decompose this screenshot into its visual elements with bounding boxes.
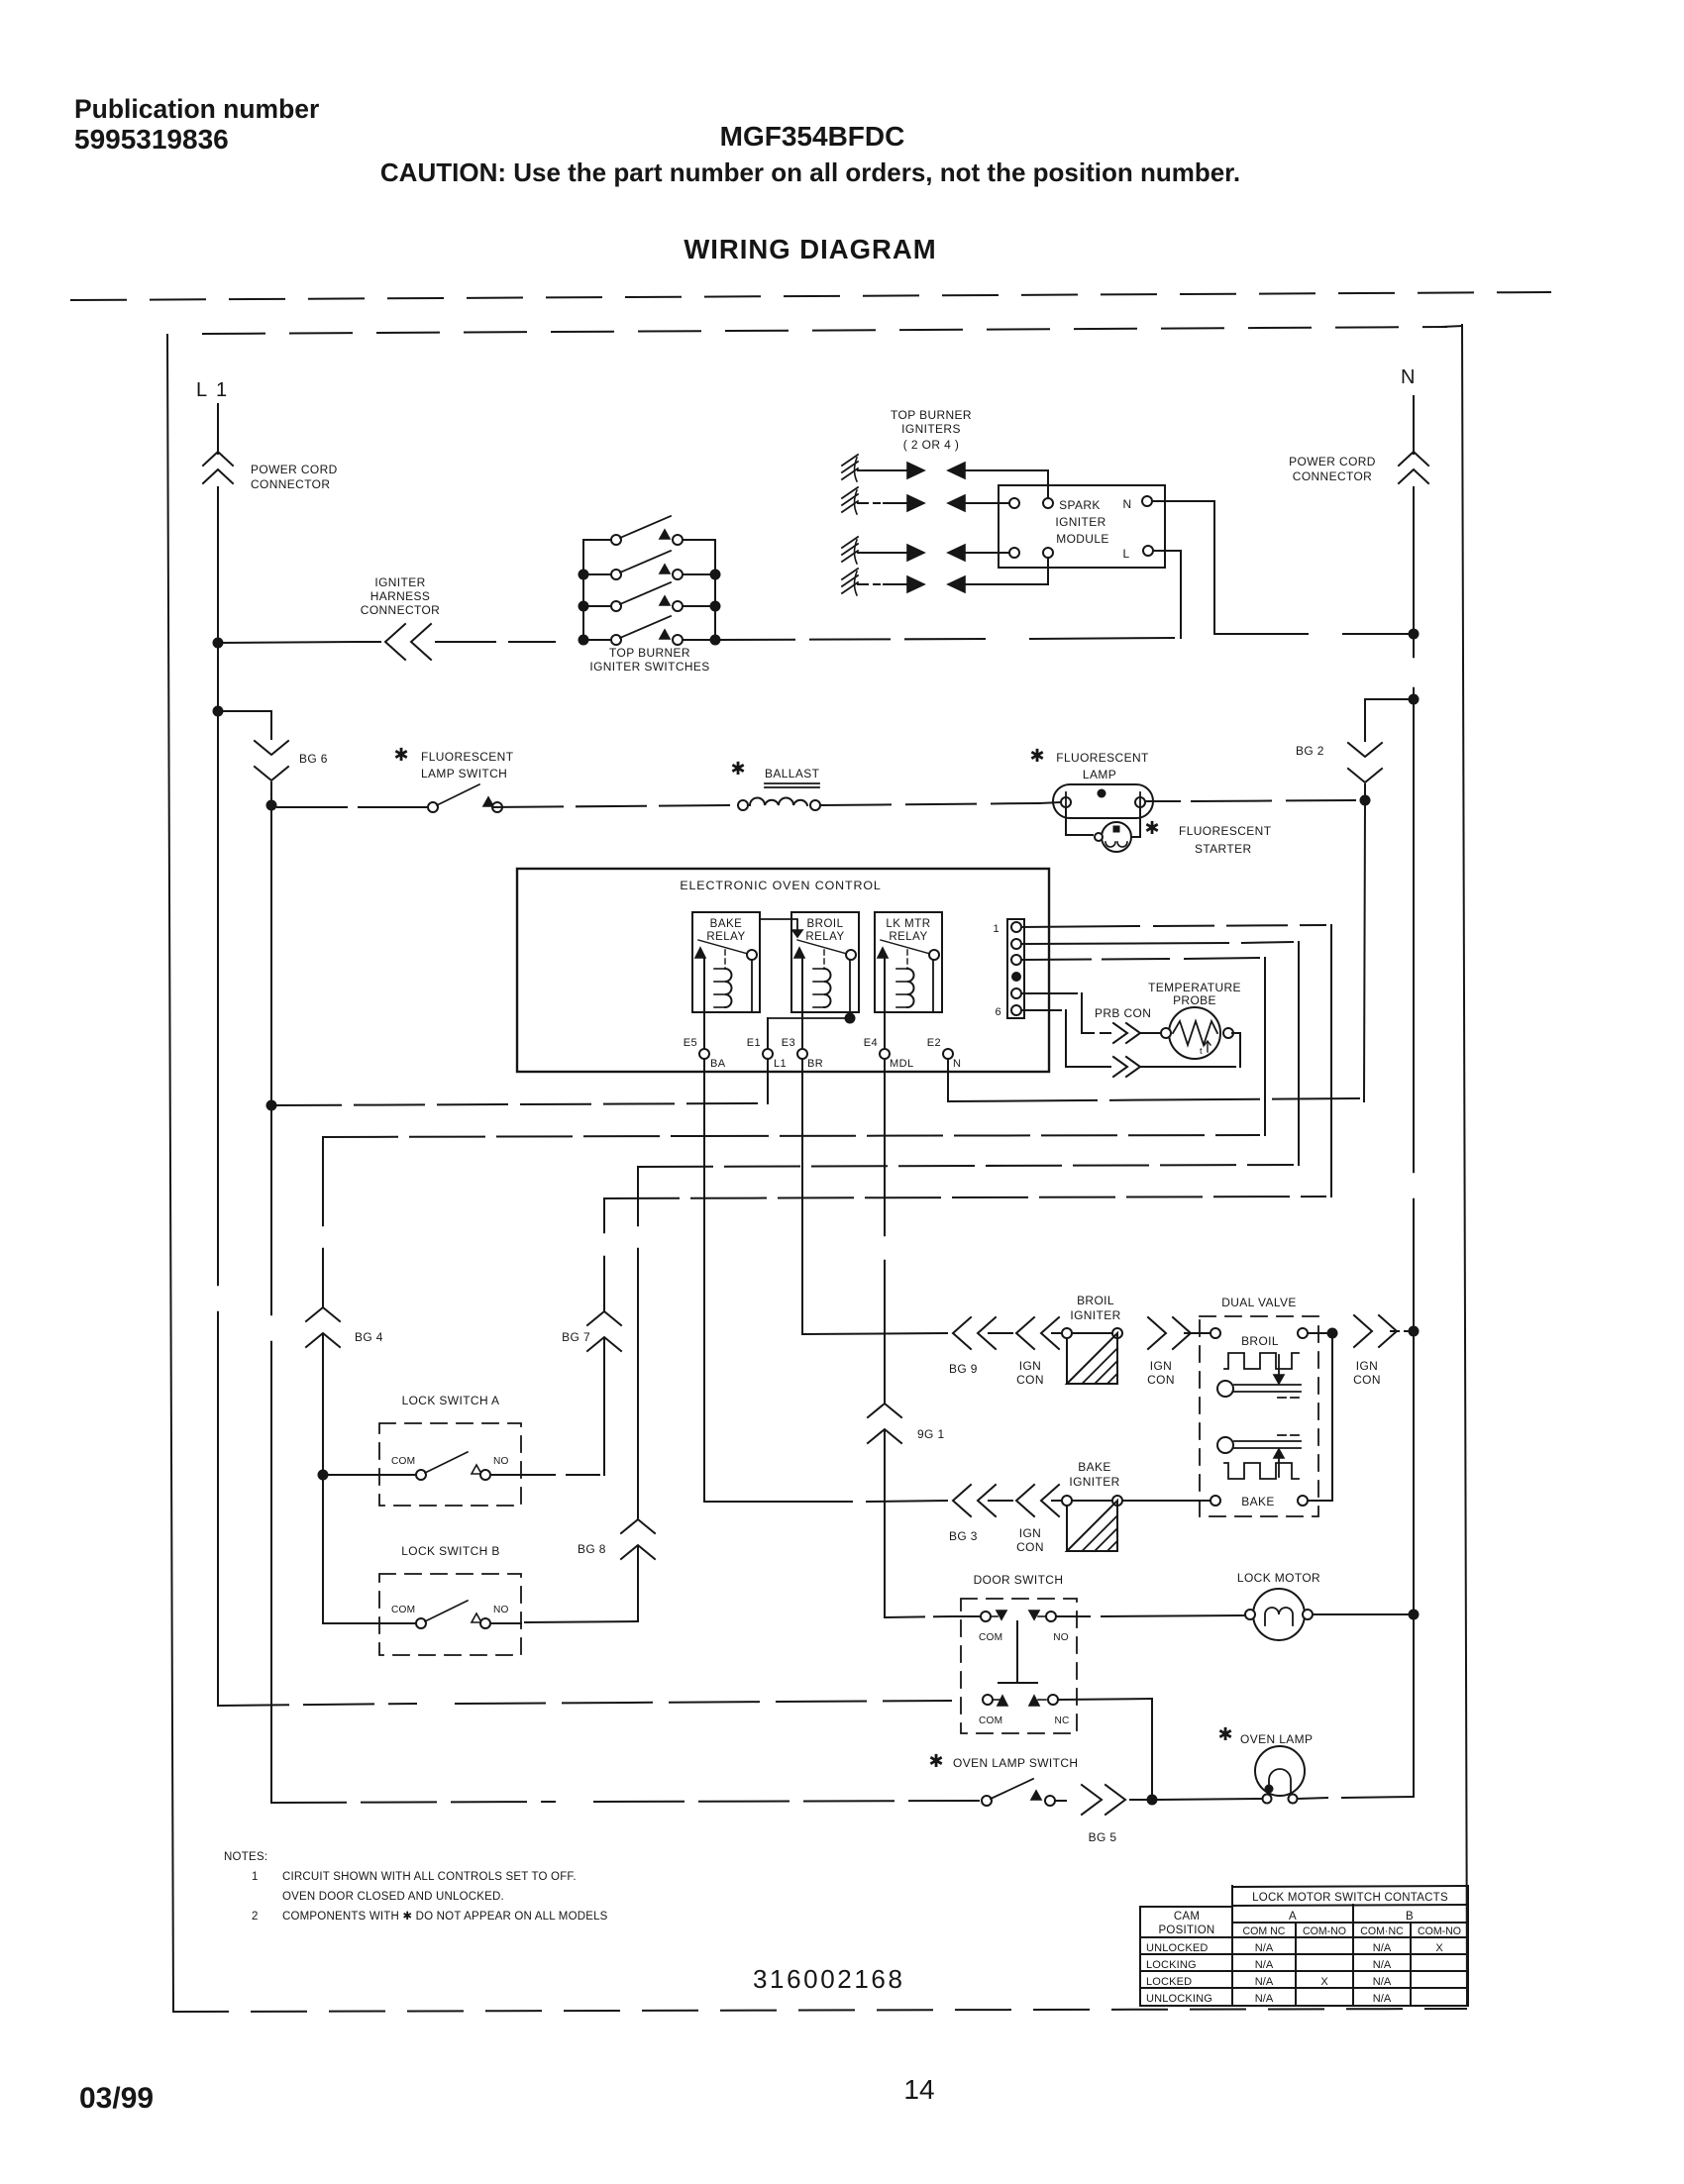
svg-text:RELAY: RELAY: [706, 931, 745, 943]
svg-text:FLUORESCENT: FLUORESCENT: [1179, 824, 1272, 838]
svg-text:IGNITER: IGNITER: [1070, 1308, 1120, 1322]
svg-text:COMPONENTS WITH ✱ DO NOT APP: COMPONENTS WITH ✱ DO NOT APPEAR ON ALL M…: [282, 1911, 608, 1923]
svg-text:LOCKING: LOCKING: [1146, 1959, 1197, 1971]
svg-text:RELAY: RELAY: [889, 931, 927, 943]
svg-text:BA: BA: [710, 1058, 726, 1070]
svg-text:BAKE: BAKE: [710, 918, 743, 930]
svg-text:CONNECTOR: CONNECTOR: [1293, 469, 1372, 483]
svg-text:COM: COM: [391, 1605, 415, 1615]
svg-text:6: 6: [995, 1006, 1001, 1018]
svg-text:IGNITER: IGNITER: [374, 575, 425, 589]
svg-text:BG 5: BG 5: [1089, 1830, 1117, 1844]
svg-text:BROIL: BROIL: [806, 918, 843, 930]
svg-text:L 1: L 1: [196, 379, 229, 401]
svg-text:N/A: N/A: [1373, 1959, 1392, 1971]
svg-text:LOCKED: LOCKED: [1146, 1976, 1192, 1988]
svg-text:✱: ✱: [928, 1751, 943, 1771]
svg-text:CON: CON: [1353, 1373, 1381, 1387]
svg-text:SPARK: SPARK: [1059, 498, 1101, 512]
svg-text:NC: NC: [1054, 1716, 1069, 1726]
svg-text:BG 4: BG 4: [355, 1330, 383, 1344]
svg-text:OVEN DOOR CLOSED AND UNLOCKED.: OVEN DOOR CLOSED AND UNLOCKED.: [282, 1891, 504, 1903]
svg-text:POWER CORD: POWER CORD: [1289, 455, 1376, 468]
svg-text:X: X: [1320, 1976, 1328, 1988]
svg-text:TOP BURNER: TOP BURNER: [891, 408, 972, 422]
svg-text:COM-NO: COM-NO: [1418, 1925, 1461, 1937]
svg-text:NO: NO: [493, 1605, 509, 1615]
svg-text:A: A: [1289, 1911, 1297, 1923]
svg-text:5995319836: 5995319836: [74, 124, 229, 155]
svg-text:BROIL: BROIL: [1077, 1294, 1114, 1307]
svg-text:CAUTION: Use the part number: CAUTION: Use the part number on all orde…: [380, 157, 1240, 187]
svg-text:NOTES:: NOTES:: [224, 1851, 267, 1863]
svg-text:CIRCUIT SHOWN WITH ALL CONTROL: CIRCUIT SHOWN WITH ALL CONTROLS SET TO O…: [282, 1871, 577, 1883]
svg-text:E4: E4: [864, 1037, 878, 1049]
svg-text:14: 14: [903, 2074, 934, 2105]
svg-text:✱: ✱: [1217, 1724, 1232, 1744]
svg-text:TOP BURNER: TOP BURNER: [609, 646, 690, 660]
svg-text:COM: COM: [979, 1716, 1002, 1726]
svg-text:B: B: [1406, 1911, 1414, 1923]
svg-text:E2: E2: [927, 1037, 941, 1049]
svg-text:FLUORESCENT: FLUORESCENT: [421, 750, 514, 764]
svg-text:POSITION: POSITION: [1159, 1924, 1215, 1936]
svg-text:BG 6: BG 6: [299, 752, 328, 766]
svg-text:X: X: [1435, 1942, 1443, 1954]
svg-text:BAKE: BAKE: [1241, 1495, 1275, 1508]
svg-text:IGNITER SWITCHES: IGNITER SWITCHES: [589, 660, 709, 674]
svg-text:PRB CON: PRB CON: [1095, 1006, 1151, 1020]
svg-text:ELECTRONIC OVEN CONTROL: ELECTRONIC OVEN CONTROL: [680, 879, 881, 892]
svg-text:TEMPERATURE: TEMPERATURE: [1148, 981, 1241, 994]
svg-text:BG 3: BG 3: [949, 1529, 978, 1543]
svg-text:BG 9: BG 9: [949, 1362, 978, 1376]
svg-text:BG 7: BG 7: [562, 1330, 590, 1344]
svg-text:N/A: N/A: [1255, 1959, 1274, 1971]
svg-text:1: 1: [993, 923, 1000, 935]
svg-text:POWER CORD: POWER CORD: [251, 463, 338, 476]
svg-text:1: 1: [252, 1871, 259, 1883]
svg-text:N/A: N/A: [1373, 1976, 1392, 1988]
svg-text:NO: NO: [493, 1456, 509, 1467]
svg-text:STARTER: STARTER: [1195, 842, 1251, 856]
svg-text:L1: L1: [774, 1058, 787, 1070]
svg-text:CAM: CAM: [1174, 1911, 1200, 1923]
svg-text:BROIL: BROIL: [1241, 1334, 1279, 1348]
svg-text:✱: ✱: [730, 759, 745, 779]
svg-text:LOCK SWITCH A: LOCK SWITCH A: [402, 1394, 500, 1407]
svg-text:N/A: N/A: [1255, 1993, 1274, 2005]
svg-text:E1: E1: [747, 1037, 761, 1049]
svg-text:COM NC: COM NC: [1243, 1925, 1286, 1937]
svg-text:CONNECTOR: CONNECTOR: [361, 603, 440, 617]
svg-text:( 2 OR 4 ): ( 2 OR 4 ): [903, 438, 959, 452]
svg-text:CON: CON: [1147, 1373, 1175, 1387]
svg-text:CON: CON: [1016, 1373, 1044, 1387]
svg-text:N/A: N/A: [1373, 1942, 1392, 1954]
svg-text:DUAL VALVE: DUAL VALVE: [1221, 1296, 1297, 1309]
svg-text:N/A: N/A: [1255, 1942, 1274, 1954]
svg-text:✱: ✱: [1029, 746, 1044, 766]
svg-text:IGN: IGN: [1019, 1526, 1041, 1540]
svg-text:2: 2: [252, 1911, 259, 1923]
svg-text:OVEN LAMP SWITCH: OVEN LAMP SWITCH: [953, 1756, 1078, 1770]
svg-text:N/A: N/A: [1373, 1993, 1392, 2005]
svg-text:IGNITERS: IGNITERS: [901, 422, 961, 436]
svg-text:FLUORESCENT: FLUORESCENT: [1056, 751, 1149, 765]
svg-text:Publication number: Publication number: [74, 94, 319, 124]
svg-text:316002168: 316002168: [753, 1964, 905, 1994]
svg-text:MGF354BFDC: MGF354BFDC: [720, 121, 905, 152]
svg-text:E3: E3: [782, 1037, 795, 1049]
svg-text:DOOR SWITCH: DOOR SWITCH: [974, 1573, 1064, 1587]
svg-text:IGN: IGN: [1356, 1359, 1378, 1373]
svg-text:✱: ✱: [1144, 818, 1159, 838]
svg-text:BR: BR: [807, 1058, 823, 1070]
svg-text:N: N: [1401, 366, 1416, 388]
svg-text:IGN: IGN: [1019, 1359, 1041, 1373]
svg-text:HARNESS: HARNESS: [370, 589, 431, 603]
svg-text:UNLOCKED: UNLOCKED: [1146, 1942, 1209, 1954]
svg-text:UNLOCKING: UNLOCKING: [1146, 1993, 1212, 2005]
svg-text:✱: ✱: [393, 745, 408, 765]
svg-text:IGNITER: IGNITER: [1069, 1475, 1119, 1489]
svg-text:BG 2: BG 2: [1296, 744, 1324, 758]
svg-text:BG 8: BG 8: [578, 1542, 606, 1556]
svg-text:N: N: [953, 1058, 961, 1070]
svg-text:LK MTR: LK MTR: [886, 918, 930, 930]
svg-text:E5: E5: [684, 1037, 697, 1049]
svg-text:MODULE: MODULE: [1056, 532, 1109, 546]
svg-text:03/99: 03/99: [79, 2082, 154, 2115]
svg-text:BAKE: BAKE: [1078, 1460, 1111, 1474]
svg-text:BALLAST: BALLAST: [765, 767, 820, 780]
svg-text:MDL: MDL: [890, 1058, 914, 1070]
svg-text:N/A: N/A: [1255, 1976, 1274, 1988]
svg-text:CON: CON: [1016, 1540, 1044, 1554]
svg-text:CONNECTOR: CONNECTOR: [251, 477, 330, 491]
svg-text:N: N: [1122, 497, 1131, 511]
svg-text:LAMP SWITCH: LAMP SWITCH: [421, 767, 507, 780]
svg-text:9G 1: 9G 1: [917, 1427, 945, 1441]
svg-text:COM: COM: [979, 1632, 1002, 1643]
svg-text:COM: COM: [391, 1456, 415, 1467]
svg-text:t: t: [1200, 1046, 1203, 1056]
svg-text:IGNITER: IGNITER: [1055, 515, 1105, 529]
svg-text:COM-NO: COM-NO: [1303, 1925, 1346, 1937]
svg-text:RELAY: RELAY: [805, 931, 844, 943]
svg-text:LAMP: LAMP: [1083, 768, 1116, 781]
svg-text:L: L: [1122, 547, 1129, 561]
svg-text:COM·NC: COM·NC: [1360, 1925, 1404, 1937]
svg-text:LOCK SWITCH B: LOCK SWITCH B: [401, 1544, 500, 1558]
svg-text:WIRING DIAGRAM: WIRING DIAGRAM: [684, 234, 936, 264]
svg-text:LOCK MOTOR SWITCH CONTACTS: LOCK MOTOR SWITCH CONTACTS: [1252, 1892, 1448, 1904]
svg-text:IGN: IGN: [1150, 1359, 1172, 1373]
svg-text:PROBE: PROBE: [1173, 993, 1216, 1007]
svg-text:LOCK MOTOR: LOCK MOTOR: [1237, 1571, 1320, 1585]
svg-text:OVEN LAMP: OVEN LAMP: [1240, 1732, 1313, 1746]
svg-text:NO: NO: [1053, 1632, 1069, 1643]
